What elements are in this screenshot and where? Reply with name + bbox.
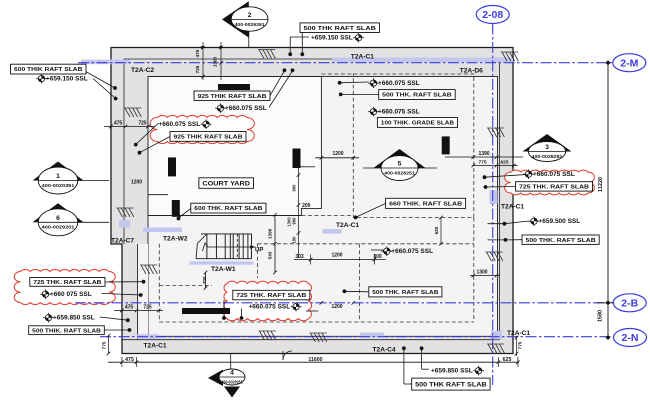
svg-text:500 THK. RAFT SLAB: 500 THK. RAFT SLAB — [526, 238, 596, 244]
opening highlight below stairs — [189, 261, 253, 264]
earth hatch left wall lower — [117, 208, 134, 217]
dim 1200 right of courtyard — [332, 151, 343, 157]
svg-text:600 THK. RAFT SLAB: 600 THK. RAFT SLAB — [194, 206, 262, 212]
svg-text:925 THIK RAFT SLAB: 925 THIK RAFT SLAB — [198, 94, 267, 100]
label T2A-C1 top — [351, 54, 374, 61]
label box 500 THIK RAFT SLAB right area — [379, 90, 456, 100]
opening highlight left wall — [119, 220, 130, 228]
svg-text:300: 300 — [373, 254, 382, 260]
svg-text:625: 625 — [434, 226, 439, 234]
level +660.075 SSL mid — [381, 246, 433, 256]
svg-text:925 THIK RAFT SLAB: 925 THIK RAFT SLAB — [174, 135, 243, 141]
revision cloud B (left) — [14, 269, 115, 304]
dashed slab edge horizontal mid — [301, 214, 353, 216]
svg-text:COURT YARD: COURT YARD — [202, 180, 250, 187]
dim line right mid 1300 — [470, 274, 500, 278]
wall outer band of building — [111, 48, 513, 354]
dim 625 rotated — [434, 226, 439, 234]
svg-text:775: 775 — [518, 341, 523, 349]
earth hatch bottom left interior — [140, 265, 157, 274]
dashed slab edge horizontal y285 — [159, 285, 212, 287]
svg-text:T2A-C4: T2A-C4 — [373, 347, 396, 354]
svg-text:11600: 11600 — [308, 357, 322, 363]
revision cloud C (bottom center) — [224, 281, 312, 320]
level +660.075 SSL right b — [368, 107, 420, 117]
svg-text:475: 475 — [114, 121, 123, 127]
marker 4 down triangle — [224, 387, 240, 398]
dashed slab edge vertical x474 lower — [473, 218, 475, 323]
dashed slab edge vertical x159 — [158, 244, 160, 322]
wall line bottom-left inner — [137, 244, 139, 340]
svg-text:3: 3 — [545, 144, 549, 151]
svg-text:700: 700 — [202, 276, 207, 284]
column bottom center wide — [182, 308, 230, 314]
dim 475 left — [114, 121, 123, 127]
dashed slab edge vertical x257 — [256, 244, 258, 278]
dim 475 at 2-B — [125, 304, 134, 310]
svg-text:6: 6 — [56, 215, 60, 222]
level +660.075 SSL right a — [368, 78, 420, 88]
dim vertical 625 right of dashed — [439, 216, 443, 246]
svg-text:1: 1 — [56, 173, 60, 180]
leader cloud D labels — [483, 175, 527, 189]
dim 1200 at 2-B — [331, 304, 342, 310]
dim line 1200 right of courtyard — [315, 156, 359, 160]
svg-text:1200: 1200 — [332, 151, 343, 157]
dim ticks 2-B mid — [320, 301, 356, 305]
dim 625 right — [500, 160, 508, 166]
svg-text:100 THIK. GRADE SLAB: 100 THIK. GRADE SLAB — [381, 121, 454, 127]
svg-text:100: 100 — [292, 236, 297, 244]
svg-text:900: 900 — [292, 217, 297, 225]
dim 725 top rotated — [195, 65, 200, 73]
grid bubble 2-M — [613, 54, 646, 72]
level +660.075 SSL cloud A — [159, 119, 212, 129]
svg-text:500 THK RAFT SLAB: 500 THK RAFT SLAB — [415, 381, 487, 388]
label T2A-C1 right — [501, 204, 524, 211]
opening highlight near T2A-W2 — [143, 228, 182, 233]
floor patch bottom-left strip — [138, 244, 148, 336]
grid bubble 2-N — [614, 329, 647, 347]
revision cloud A (courtyard) — [150, 115, 254, 143]
label box 500 THIK RAFT SLAB right outside — [522, 235, 599, 244]
level +660.075 SSL courtyard — [215, 103, 267, 113]
svg-text:600 THIK RAFT SLAB: 600 THIK RAFT SLAB — [14, 67, 83, 73]
svg-text:T2A-C1: T2A-C1 — [351, 54, 374, 61]
dashed slab edge rect top-right — [353, 74, 474, 218]
earth hatch right wall mid — [487, 128, 504, 137]
leader cloud C labels — [222, 300, 243, 320]
svg-text:400-0029201: 400-0029201 — [42, 225, 75, 230]
column top of courtyard — [218, 84, 250, 90]
svg-text:725 THK. RAFT SLAB: 725 THK. RAFT SLAB — [33, 280, 101, 286]
svg-text:200: 200 — [302, 203, 311, 209]
svg-text:2-B: 2-B — [621, 297, 638, 309]
svg-text:UP: UP — [255, 248, 263, 254]
level +660.075 SSL cloud C — [249, 302, 302, 312]
svg-text:1200: 1200 — [331, 304, 342, 310]
svg-text:T2A-C1: T2A-C1 — [336, 222, 359, 229]
svg-text:400-0020351: 400-0020351 — [42, 183, 75, 188]
dashed slab edge vertical x359 lower — [358, 244, 360, 322]
dim line left wall 475/725 — [104, 125, 155, 129]
leader ssl mid-right — [371, 249, 386, 251]
marker 1 line — [78, 180, 109, 182]
marker 6 line — [78, 221, 109, 223]
svg-text:500 THK. RAFT SLAB: 500 THK. RAFT SLAB — [372, 290, 438, 296]
opening highlight right of middle band — [323, 229, 342, 234]
label box 500 THIK RAFT SLAB left bottom — [29, 326, 105, 335]
label box 725 THK RAFT SLAB cloud B — [30, 278, 105, 287]
svg-text:725: 725 — [138, 121, 147, 127]
grid line highlight 2-N segment b — [360, 333, 384, 338]
dimension text 11220 — [598, 177, 604, 192]
label T2A-C4 — [373, 347, 396, 354]
earth hatch top right corner — [501, 52, 518, 61]
level +659.150 SSL left — [36, 74, 88, 84]
svg-text:1300: 1300 — [287, 217, 292, 227]
dim 200 corner — [302, 203, 311, 209]
dashed slab edge bottom y322 — [159, 321, 474, 323]
svg-text:1200: 1200 — [331, 252, 342, 258]
dim 100 rotated c — [292, 236, 297, 244]
dim vertical 700 — [204, 271, 208, 290]
svg-text:4: 4 — [230, 370, 234, 377]
svg-text:2: 2 — [248, 12, 252, 19]
door arc bottom — [283, 351, 292, 360]
dimension text 1580 — [598, 310, 604, 322]
svg-text:+659.850 SSL: +659.850 SSL — [53, 315, 95, 322]
svg-text:1300: 1300 — [476, 269, 487, 275]
label box 660 THIK RAFT SLAB — [386, 198, 466, 208]
grid bubble 2-B — [613, 294, 646, 312]
svg-text:400-0028281: 400-0028281 — [532, 154, 563, 159]
label T2A-C1 bottom left — [144, 343, 167, 350]
dim 1200 left — [131, 180, 142, 186]
level +659.850 SSL left — [43, 313, 95, 323]
dim vertical 1390/5435 — [273, 213, 277, 274]
courtyard boundary — [148, 77, 321, 216]
label box 925 THIK RAFT SLAB cloud A — [170, 132, 246, 142]
grid line 2-B — [75, 302, 613, 304]
svg-text:2-08: 2-08 — [482, 9, 503, 21]
dim 1300 stairs rotated — [287, 217, 292, 227]
dim vertical 775 bottom left — [107, 334, 111, 355]
svg-text:725: 725 — [143, 304, 152, 310]
level +659.150 SSL top — [311, 33, 364, 43]
svg-text:400-0029291: 400-0029291 — [235, 22, 266, 27]
svg-text:1390: 1390 — [268, 228, 273, 239]
grid line 2-08 vertical — [492, 24, 494, 386]
dim vertical 775 bottom right — [515, 336, 519, 356]
column left courtyard lower — [172, 200, 180, 217]
svg-text:5: 5 — [398, 161, 402, 168]
section marker 5 — [374, 149, 426, 181]
svg-text:500 THK. RAFT SLAB: 500 THK. RAFT SLAB — [382, 93, 452, 99]
level +660 075 SSL cloud B — [40, 289, 92, 299]
svg-text:500 THIK. RAFT SLAB: 500 THIK. RAFT SLAB — [32, 328, 101, 334]
svg-text:T2A-C1: T2A-C1 — [501, 204, 524, 211]
level +659.500 SSL right — [529, 216, 581, 226]
dashed slab edge top courtyard to rectA — [321, 73, 353, 75]
level +660.075 SSL cloud D — [523, 169, 575, 179]
dimension text 11600 — [308, 357, 322, 363]
svg-text:625: 625 — [500, 160, 508, 166]
leader top-left box to wall — [86, 72, 118, 101]
grid line 2-M — [78, 62, 613, 64]
section marker 6 — [33, 203, 84, 236]
label box 725 THK RAFT SLAB cloud C — [233, 290, 310, 300]
svg-text:1390: 1390 — [478, 151, 489, 157]
dim 900 rotated a — [292, 184, 297, 192]
leader left bottom labels — [100, 317, 132, 332]
svg-text:725: 725 — [195, 65, 200, 73]
section marker 2 — [222, 1, 268, 37]
svg-text:+660.075 SSL: +660.075 SSL — [249, 304, 291, 311]
dim 5435 rotated — [268, 251, 273, 259]
grid line highlight 2-08 wall segment — [490, 190, 498, 204]
svg-text:+659.500 SSL: +659.500 SSL — [539, 218, 581, 225]
leader 500 raft mid — [343, 289, 369, 293]
svg-text:900: 900 — [292, 184, 297, 192]
svg-text:400-0028251: 400-0028251 — [384, 170, 415, 175]
svg-text:T2A-C2: T2A-C2 — [131, 67, 154, 74]
dim ticks top wall — [201, 42, 223, 80]
earth hatch bottom center — [310, 333, 327, 342]
dim 900 rotated b — [292, 217, 297, 225]
leader 660 raft box — [354, 203, 386, 219]
svg-text:+660.075 SSL: +660.075 SSL — [378, 80, 420, 87]
label box 500 THK RAFT SLAB top — [300, 23, 379, 33]
dimension text 625 bottom — [503, 357, 512, 363]
marker 2 line — [248, 31, 250, 48]
dim 775 right — [478, 160, 486, 166]
label box 500 THK RAFT SLAB bottom — [412, 378, 490, 390]
svg-text:+660.075 SSL: +660.075 SSL — [533, 171, 575, 178]
leader cloud A labels to wall — [134, 123, 170, 155]
svg-text:T2A-C7: T2A-C7 — [111, 238, 134, 245]
dim line 475/725 bottom-left — [114, 309, 163, 313]
column right courtyard — [293, 149, 301, 169]
label T2A-W1 — [211, 266, 236, 273]
leader cloud C ssl to wall — [306, 310, 318, 312]
level +659.850 SSL bottom — [431, 366, 484, 376]
grid bubble 2-08 — [476, 6, 509, 24]
leader right outside labels — [488, 221, 530, 242]
column right area — [442, 136, 450, 154]
svg-text:1300: 1300 — [213, 56, 218, 67]
dim 303 — [295, 254, 304, 260]
dim 1390 rotated — [268, 228, 273, 239]
dimension line bottom 11600 — [108, 357, 520, 367]
svg-text:625: 625 — [503, 357, 512, 363]
svg-text:+660.075 SSL: +660.075 SSL — [378, 109, 420, 116]
dimension text 475 bottom — [125, 357, 134, 363]
svg-text:2-M: 2-M — [620, 57, 638, 69]
grid line highlight 2-N segment a — [137, 334, 159, 338]
svg-text:400-0020251: 400-0020251 — [221, 379, 243, 384]
svg-text:+659.150 SSL: +659.150 SSL — [46, 76, 88, 83]
svg-text:+660.075 SSL: +660.075 SSL — [159, 121, 201, 128]
svg-text:+660.075 SSL: +660.075 SSL — [391, 248, 433, 255]
label T2A-C7 — [111, 238, 134, 245]
svg-text:475: 475 — [125, 357, 134, 363]
svg-text:T2A-W1: T2A-W1 — [211, 266, 236, 273]
label box 100 THIK GRADE SLAB — [377, 118, 457, 128]
dim vertical courtyard right — [297, 165, 301, 258]
column left courtyard upper — [168, 157, 176, 176]
svg-text:475: 475 — [195, 49, 200, 57]
svg-text:725 THK. RAFT SLAB: 725 THK. RAFT SLAB — [236, 293, 306, 299]
dashed slab edge horizontal y244 — [257, 243, 473, 245]
svg-text:11220: 11220 — [598, 177, 604, 192]
leader 925 box to wall — [269, 68, 294, 107]
svg-text:303: 303 — [295, 254, 304, 260]
svg-text:+660.075 SSL: +660.075 SSL — [225, 105, 267, 112]
label T2A-C1 mid — [336, 222, 359, 229]
revision cloud D (right) — [505, 170, 595, 195]
dim 1390 right — [478, 151, 489, 157]
dim 700 rotated — [202, 276, 207, 284]
grid line 2-N — [100, 336, 613, 338]
dim 475 top rotated — [195, 49, 200, 57]
earth hatch bottom right — [487, 344, 504, 353]
label box 500 THIK RAFT SLAB mid — [369, 287, 442, 297]
label box COURT YARD — [199, 178, 254, 189]
section marker 4 — [208, 369, 245, 386]
dim line 303/1200/300 — [294, 255, 386, 265]
dim 300 mid — [373, 254, 382, 260]
svg-text:+659.850 SSL: +659.850 SSL — [431, 368, 473, 375]
svg-text:T2A-C1: T2A-C1 — [144, 343, 167, 350]
grid line highlight 2-M main segment — [332, 58, 513, 63]
svg-text:T2A-C1: T2A-C1 — [507, 330, 530, 337]
label T2A-C2 — [131, 67, 154, 74]
stairs arrow UP text — [255, 248, 263, 254]
svg-text:T2A-D6: T2A-D6 — [460, 67, 483, 74]
dim 775 bottom right rotated — [518, 341, 523, 349]
earth hatch top wall — [258, 50, 275, 59]
dim 725 left — [138, 121, 147, 127]
dimension line right 11220/1580 — [597, 60, 614, 340]
leader 600 box courtyard — [177, 208, 191, 220]
dim 1300 top rotated — [213, 56, 218, 67]
label box 600 THK RAFT SLAB courtyard — [191, 203, 266, 213]
label box 925 THIK RAFT SLAB — [194, 91, 270, 100]
svg-text:660 THIK. RAFT SLAB: 660 THIK. RAFT SLAB — [389, 202, 462, 208]
svg-text:2-N: 2-N — [622, 332, 639, 344]
dim line right 775/625 — [472, 164, 518, 168]
svg-text:1200: 1200 — [131, 180, 142, 186]
grid line highlight 2-M left segment — [81, 60, 130, 65]
stairs T2A-W1 — [196, 234, 255, 259]
label box 725 THIK RAFT SLAB cloud D — [516, 182, 593, 191]
dim 725 at 2-B — [143, 304, 152, 310]
svg-text:+659.150 SSL: +659.150 SSL — [311, 35, 353, 42]
svg-text:775: 775 — [478, 160, 486, 166]
section marker 3 — [523, 134, 572, 162]
wall intermediate line rectangle — [122, 59, 500, 340]
label box 600 THIK RAFT SLAB top-left — [11, 64, 87, 74]
svg-text:475: 475 — [125, 304, 134, 310]
earth hatch bottom near marker4 — [259, 331, 276, 340]
label T2A-W2 — [163, 236, 188, 243]
dim 1300 right mid — [476, 269, 487, 275]
svg-text:543: 543 — [268, 251, 273, 259]
svg-text:T2A-W2: T2A-W2 — [163, 236, 188, 243]
marker 5 center line — [363, 167, 437, 169]
label T2A-D6 — [460, 67, 483, 74]
svg-text:+660 075 SSL: +660 075 SSL — [50, 291, 92, 298]
section marker 1 — [33, 162, 84, 195]
svg-text:775: 775 — [102, 341, 107, 349]
dim 1200 mid — [331, 252, 342, 258]
leader cloud B labels — [102, 280, 146, 297]
dim line right 1390 — [445, 155, 523, 159]
column tie right — [301, 166, 316, 168]
leader top-center labels to wall — [288, 33, 309, 57]
leader bottom center labels — [402, 346, 429, 384]
svg-text:1580: 1580 — [598, 310, 604, 322]
leader 500 raft right area — [338, 81, 379, 96]
earth hatch left wall upper — [124, 108, 141, 117]
label T2A-C1 bottom right — [507, 330, 530, 337]
grid line highlight 2-N segment c — [491, 331, 502, 339]
floor interior area — [148, 77, 498, 337]
svg-text:500 THK RAFT SLAB: 500 THK RAFT SLAB — [304, 26, 376, 32]
marker 4 line — [230, 354, 232, 370]
earth hatch right wall lower — [486, 252, 503, 261]
dim 775 bottom left rotated — [102, 341, 107, 349]
column tie left — [148, 194, 168, 196]
svg-text:725 THK. RAFT SLAB: 725 THK. RAFT SLAB — [519, 185, 589, 191]
